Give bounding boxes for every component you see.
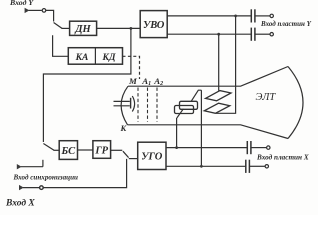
node input Y terminal bbox=[25, 8, 46, 13]
CRT heater filament bbox=[114, 101, 130, 105]
Y deflection plates (horizontal plates pair) bbox=[204, 91, 231, 114]
wire blade to UGO bbox=[129, 158, 138, 160]
node junction on Y line bbox=[130, 27, 133, 30]
wire X input to switch bbox=[43, 159, 126, 188]
wire KD dashed link to modulator bbox=[123, 56, 140, 79]
svg-text:А1: А1 bbox=[141, 76, 151, 87]
node junction upper output bbox=[234, 15, 237, 18]
switch S3 blade (X source selector) bbox=[123, 151, 129, 157]
node junction X lower bbox=[200, 165, 203, 168]
wire UVO output upper bbox=[167, 15, 251, 17]
CRT cathode cup arc bbox=[132, 96, 134, 112]
box BS sync block bbox=[59, 141, 77, 160]
CRT cathode bar bbox=[130, 98, 132, 109]
svg-text:М: М bbox=[128, 76, 138, 86]
CRT tube ELT envelope bbox=[121, 67, 303, 139]
node junction X upper bbox=[175, 146, 178, 149]
wire lower Y plate lead bbox=[216, 16, 236, 113]
svg-text:ДН: ДН bbox=[74, 24, 91, 35]
wire Y input to switch bbox=[46, 10, 54, 21]
svg-text:Вход Y: Вход Y bbox=[9, 0, 34, 7]
switch S1 blade (Y input to DN) bbox=[54, 23, 62, 29]
electrode A2 dashed bbox=[156, 88, 158, 122]
capacitor C4 coupling X lower bbox=[246, 160, 269, 173]
X deflection plates (vertical plates pair) bbox=[175, 90, 202, 118]
svg-text:Вход X: Вход X bbox=[5, 198, 35, 209]
wire X front plate lead down bbox=[176, 118, 178, 148]
svg-text:ЭЛТ: ЭЛТ bbox=[256, 92, 277, 103]
svg-text:БС: БС bbox=[60, 146, 76, 157]
svg-text:А2: А2 bbox=[153, 76, 163, 87]
capacitor C3 coupling X upper bbox=[247, 141, 270, 154]
wire DN to UVO bbox=[97, 27, 141, 29]
wire sync input up to switch bbox=[42, 160, 44, 167]
svg-text:КД: КД bbox=[102, 53, 116, 63]
wire upper Y plate lead bbox=[218, 34, 220, 90]
svg-text:Вход пластин X: Вход пластин X bbox=[256, 154, 309, 162]
wire UVO output lower bbox=[167, 33, 251, 35]
resistor box DN (divider) bbox=[70, 21, 97, 35]
wire internal sync pickup bbox=[43, 28, 130, 142]
wire GR output bbox=[111, 149, 123, 151]
capacitor C1 coupling Y upper bbox=[251, 9, 273, 22]
svg-text:Вход пластин Y: Вход пластин Y bbox=[260, 20, 312, 28]
node input sync terminal bbox=[17, 164, 43, 169]
wire BS to GR bbox=[78, 149, 93, 151]
electrode A1 dashed bbox=[147, 88, 149, 122]
wire X back plate lead down bbox=[200, 90, 202, 166]
wire UGO output upper bbox=[166, 147, 247, 149]
wire switch lower branch to KA bbox=[53, 35, 69, 56]
wire UGO output lower bbox=[166, 165, 246, 167]
svg-text:К: К bbox=[120, 123, 128, 133]
node junction lower output bbox=[217, 33, 220, 36]
switch S2 blade (sync selector) bbox=[43, 144, 54, 151]
wire switch to DN bbox=[62, 27, 70, 29]
svg-text:КА: КА bbox=[75, 53, 89, 63]
box UGO horizontal amplifier bbox=[138, 142, 166, 169]
capacitor C2 coupling Y lower bbox=[251, 28, 273, 41]
wire blade to BS bbox=[54, 149, 60, 151]
svg-text:ГР: ГР bbox=[94, 146, 108, 157]
svg-text:Вход синхронизации: Вход синхронизации bbox=[13, 174, 79, 182]
box KA KD calibrators bbox=[68, 48, 122, 64]
electrode M dashed bbox=[137, 88, 139, 122]
svg-text:УВО: УВО bbox=[143, 20, 165, 31]
box GR sweep generator bbox=[93, 141, 111, 159]
box UVO vertical amplifier bbox=[140, 11, 167, 38]
node input X terminal bbox=[19, 185, 43, 190]
svg-text:УГО: УГО bbox=[141, 152, 163, 163]
